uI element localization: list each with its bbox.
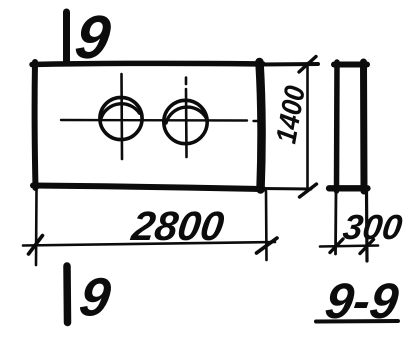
wire section strip right edge — [360, 62, 368, 191]
wire dim2800 right arrow tick — [257, 238, 278, 253]
wire section strip left edge — [334, 62, 340, 191]
wire dim1400 line — [306, 63, 309, 191]
wire section strip top edge — [334, 62, 367, 68]
wire dim300 right extension — [365, 191, 369, 261]
node hole1 outer circle — [100, 97, 142, 139]
wire dim300 right arrow tick — [360, 240, 374, 254]
wire dim1400 top extension — [261, 62, 318, 67]
wire plate right edge — [260, 62, 262, 190]
node hole2 inner arc — [166, 107, 207, 123]
wire dim2800 line — [23, 242, 275, 246]
wire dim300 line — [320, 246, 378, 247]
wire dim1400 bottom arrow tick — [300, 184, 317, 197]
wire hole1 vertical centerline — [120, 74, 123, 159]
wire hole2 vertical centerline — [185, 89, 188, 157]
wire plate left edge — [32, 62, 39, 188]
svg-text:1400: 1400 — [269, 83, 311, 146]
wire hole2 vertical centerline dash — [185, 78, 188, 85]
svg-text:9-9: 9-9 — [322, 273, 402, 329]
wire dim300 left arrow tick — [330, 239, 343, 253]
node hole1 inner arc — [101, 104, 140, 118]
wire horizontal centerline dash — [254, 120, 259, 122]
wire horizontal centerline — [61, 119, 247, 122]
node hole2 outer circle — [164, 100, 207, 143]
wire dim1400 top arrow tick — [299, 57, 316, 73]
node section mark bottom bar — [63, 266, 71, 323]
wire dim300 left extension — [334, 191, 337, 254]
wire label 9-9 underline — [316, 319, 398, 324]
wire dim2800 left arrow tick — [29, 236, 43, 255]
node section mark top bar — [63, 12, 70, 61]
svg-text:9: 9 — [76, 268, 114, 328]
wire dim1400 bottom extension — [261, 187, 311, 191]
wire dim2800 left extension — [35, 190, 38, 265]
wire plate bottom edge — [33, 186, 263, 190]
svg-text:2800: 2800 — [128, 203, 227, 249]
svg-text:9: 9 — [71, 3, 114, 71]
wire dim2800 right extension — [265, 191, 268, 260]
wire plate top edge — [32, 63, 263, 64]
svg-text:300: 300 — [341, 208, 405, 247]
wire section strip bottom edge — [329, 185, 368, 191]
